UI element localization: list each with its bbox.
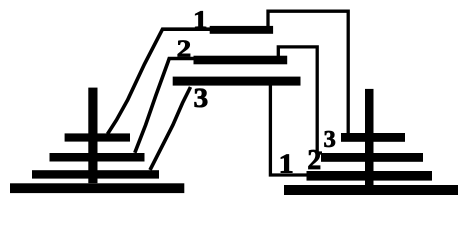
label 2 (top left) <box>178 40 190 56</box>
label 1 (right) <box>281 154 292 172</box>
elbow wire 2: bar 2 to right disc 2 <box>278 47 322 153</box>
floating bar 1 (disc 1 in transit) <box>210 26 273 34</box>
label 1 (top left) <box>195 11 206 28</box>
right tower pole <box>365 89 374 185</box>
elbow wire 1: bar 1 to right disc 1 <box>268 11 348 134</box>
left tower pole <box>88 88 97 184</box>
left tower disc 1 (small) <box>65 133 130 141</box>
left tower disc 2 (medium) <box>50 153 145 162</box>
label 3 (right) <box>324 131 335 147</box>
elbow wire 3: bar 3 to right disc 3 <box>270 85 306 175</box>
left tower disc 3 (large) <box>32 170 159 178</box>
label 3 (below bar 3) <box>195 89 208 107</box>
label 2 (right) <box>309 150 321 169</box>
right tower disc 3 (large) <box>307 171 433 181</box>
leader wire 3: left disc 3 to bar 3 <box>150 87 191 170</box>
floating bar 3 (disc 3 in transit) <box>173 77 301 86</box>
right tower disc 1 (small) <box>341 133 405 142</box>
leader wire 1: left disc 1 to bar 1 <box>108 29 211 134</box>
leader wire 2: left disc 2 to bar 2 <box>135 59 195 153</box>
right tower base <box>284 185 458 195</box>
right tower disc 2 (medium) <box>321 153 423 162</box>
floating bar 2 (disc 2 in transit) <box>194 56 288 65</box>
left tower base <box>10 183 184 193</box>
